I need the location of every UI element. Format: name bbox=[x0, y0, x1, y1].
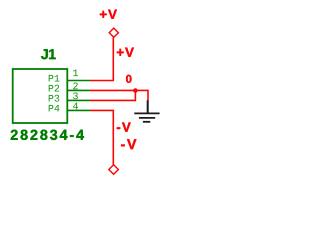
wire pin2 to ground bbox=[90, 90, 148, 100]
-V supply symbol diamond bbox=[109, 165, 119, 175]
wire pin3 riser bbox=[90, 90, 135, 100]
ground symbol stem bbox=[147, 100, 149, 113]
+V supply symbol diamond bbox=[109, 28, 118, 37]
pin 2 stub bbox=[68, 89, 90, 91]
net label -V wire bbox=[117, 123, 131, 132]
pin 4 stub bbox=[68, 109, 90, 111]
net label +V top bbox=[100, 10, 117, 19]
pin number 1 bbox=[73, 70, 78, 77]
junction dot node 0 bbox=[133, 88, 138, 93]
ground bar 3 bbox=[143, 121, 150, 123]
pin name P1 bbox=[49, 75, 60, 82]
net label +V wire bbox=[117, 48, 134, 57]
pin 3 stub bbox=[68, 99, 90, 101]
net label -V symbol bbox=[121, 139, 136, 149]
pin number 4 bbox=[73, 103, 78, 110]
pin number 2 bbox=[73, 83, 78, 90]
connector J1 body bbox=[13, 69, 68, 123]
pin number 3 bbox=[73, 93, 78, 100]
pin name P4 bbox=[49, 105, 60, 112]
pin name P2 bbox=[49, 85, 60, 92]
wire pin4 to -V bbox=[90, 110, 113, 164]
pin name P3 bbox=[49, 95, 60, 102]
ground bar 1 bbox=[134, 112, 159, 114]
net label 0 bbox=[126, 75, 131, 83]
ground bar 2 bbox=[139, 117, 155, 119]
value label 282834-4 bbox=[11, 130, 84, 140]
wire pin1 to +V bbox=[90, 38, 113, 81]
refdes label J1 bbox=[41, 49, 56, 59]
pin 1 stub bbox=[68, 80, 90, 82]
